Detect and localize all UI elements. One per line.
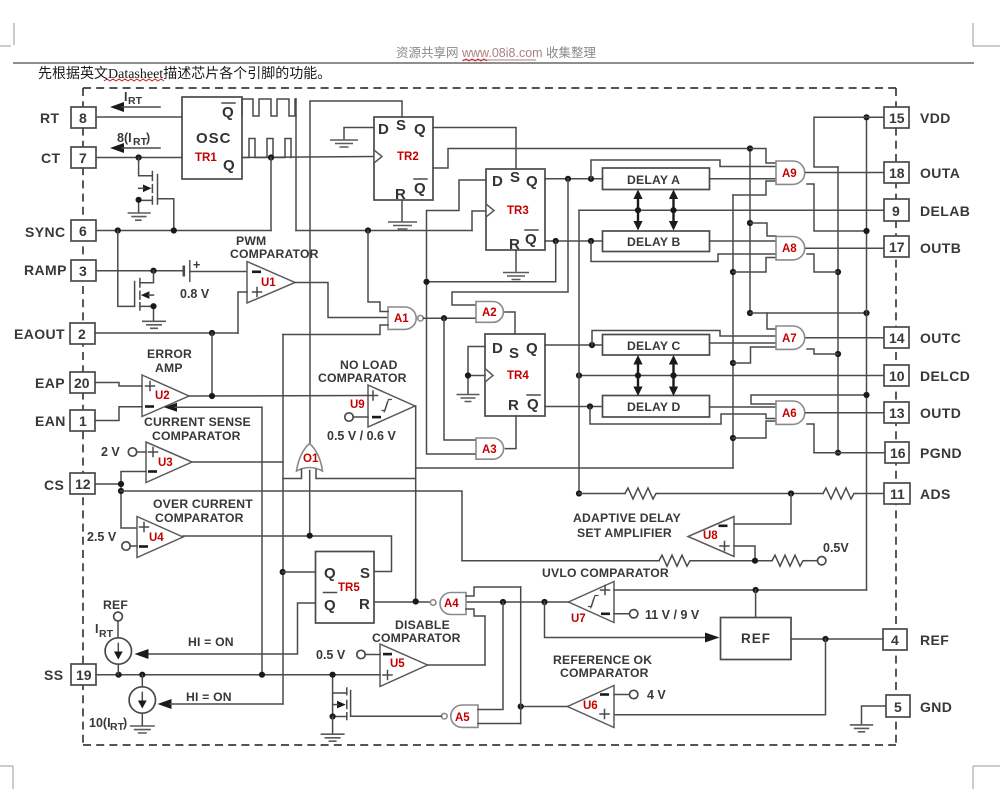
wire CS pin row	[95, 483, 121, 485]
double arrow AB-1	[633, 190, 642, 231]
svg-text:COMPARATOR: COMPARATOR	[372, 631, 461, 645]
page corner mark bottom-right	[973, 766, 1000, 789]
rail x733 (kill line)	[732, 195, 734, 468]
wire U1 output to A1	[295, 283, 388, 318]
wire VDD pin row	[814, 117, 884, 167]
svg-text:REF: REF	[920, 632, 949, 648]
wire REF out to U6+	[614, 639, 826, 715]
svg-text:6: 6	[79, 223, 87, 239]
wire kill row468	[416, 467, 733, 469]
junction VDD row	[863, 114, 869, 120]
wire TR3 Q bypass to A9	[591, 160, 776, 179]
svg-text:ADS: ADS	[920, 486, 951, 502]
junction TR3 Qbar / A8 feed	[588, 238, 594, 244]
ground (TR2 R)	[388, 222, 417, 229]
wire SS row	[96, 674, 380, 676]
comparator U4 (over current)	[137, 517, 183, 558]
svg-text:0.5 V / 0.6 V: 0.5 V / 0.6 V	[327, 429, 396, 443]
junction ADS/U8-	[788, 490, 794, 496]
svg-text:Q: Q	[527, 396, 539, 413]
svg-text:U9: U9	[350, 399, 365, 411]
junction TR4 Q / A7 bypass	[589, 342, 595, 348]
svg-text:8(I: 8(I	[117, 131, 132, 145]
svg-text:U3: U3	[158, 457, 173, 469]
MOSFET Q3 (SS discharge)	[321, 675, 351, 742]
svg-text:Q: Q	[324, 597, 336, 614]
pin REF 4	[883, 629, 907, 650]
op-amp U2 (error amp)	[142, 375, 189, 417]
wire TR5 R row	[374, 601, 430, 603]
ground (Q3)	[321, 734, 345, 741]
junction U7+/REF	[753, 587, 759, 593]
comparator U7 (UVLO, points left)	[569, 582, 615, 623]
junction CS node1	[118, 481, 124, 487]
junction RAMP/FET	[150, 268, 156, 274]
Q2 source wire	[140, 306, 154, 320]
svg-text:RT: RT	[40, 110, 60, 126]
junction EAOUT/U2out	[209, 330, 215, 336]
Q2 channel bar	[139, 279, 141, 311]
Q3 drain wire	[333, 692, 347, 694]
junction rail750/A8	[747, 220, 753, 226]
ground (Q1 source)	[128, 213, 151, 220]
resistor R3	[659, 555, 692, 566]
svg-text:S: S	[360, 565, 370, 582]
svg-text:UVLO COMPARATOR: UVLO COMPARATOR	[542, 566, 669, 580]
svg-text:先根据英文Datasheet描述芯片各个引脚的功能。: 先根据英文Datasheet描述芯片各个引脚的功能。	[38, 65, 331, 82]
junction CD line / rail579	[576, 372, 582, 378]
svg-text:I: I	[95, 622, 98, 636]
wire A4 input2 from U5	[466, 609, 485, 665]
svg-text:R: R	[359, 596, 370, 613]
wire TR4 Q row to DELAY C	[545, 344, 603, 346]
wire Q branch down to SYNC row	[270, 158, 272, 231]
MOSFET Q1 (CT discharge)	[128, 158, 174, 230]
wire A5 input1 from U7 line	[478, 602, 503, 710]
svg-text:REFERENCE OK: REFERENCE OK	[553, 653, 652, 667]
Q1 channel bar	[151, 172, 153, 205]
arrow 8(IRT)	[110, 143, 124, 153]
svg-text:DELAY C: DELAY C	[627, 339, 681, 353]
pin SYNC 6	[71, 220, 96, 241]
svg-text:NO LOAD: NO LOAD	[340, 358, 398, 372]
TR2 clock triangle	[374, 150, 382, 163]
svg-text:A5: A5	[455, 712, 470, 724]
junction rail733/A6 bottom	[730, 435, 736, 441]
svg-text:U6: U6	[583, 700, 598, 712]
svg-text:18: 18	[889, 165, 905, 181]
wire I2 bottom to ground	[141, 713, 143, 725]
Q3 source wire	[333, 716, 347, 718]
svg-text:OSC: OSC	[196, 130, 232, 147]
svg-text:20: 20	[74, 375, 90, 391]
wire U5 output to A4	[428, 664, 486, 666]
junction A1 out	[441, 315, 447, 321]
junction row395/VDD rail	[863, 392, 869, 398]
wire CS row to adaptive delay	[121, 491, 462, 561]
AND gate A9	[776, 161, 805, 184]
pin OUTD 13	[884, 402, 909, 423]
Q2 body arrow	[141, 291, 150, 299]
wire rail733 to A7 bottom input	[733, 347, 776, 363]
AND gate A7	[776, 326, 805, 349]
wire U8+ to 0.5V row	[734, 546, 755, 561]
svg-text:16: 16	[890, 445, 906, 461]
wire U3- to CS node	[121, 472, 146, 529]
wire I1 to SS	[117, 664, 119, 675]
junction SYNC/gate	[115, 227, 121, 233]
flip-flop TR3	[486, 169, 545, 250]
svg-text:17: 17	[889, 239, 905, 255]
pin ADS 11	[884, 483, 910, 504]
wire TR4 Qbar bypass to A6	[590, 407, 776, 425]
svg-text:11: 11	[890, 486, 905, 502]
double arrow CD-1	[633, 355, 642, 396]
junction rail838/PGND	[835, 450, 841, 456]
svg-text:0.5 V: 0.5 V	[316, 648, 346, 662]
Q3 source junction	[330, 713, 336, 719]
oscillator OSC TR1	[182, 97, 242, 179]
block DELAY C	[603, 335, 710, 356]
svg-text:1: 1	[79, 413, 87, 429]
junction row2 to A1	[365, 227, 371, 233]
svg-text:12: 12	[75, 476, 91, 492]
resistor R1	[625, 488, 658, 499]
svg-text:D: D	[378, 121, 389, 138]
svg-text:R: R	[509, 236, 520, 253]
waveform Q-bar (OSC top output)	[242, 99, 296, 116]
svg-text:4: 4	[891, 632, 899, 648]
pin SS 19	[71, 664, 96, 685]
wire U7 out to REF input arrow	[545, 602, 707, 638]
junction TR3 Qbar / D-feedback	[553, 238, 559, 244]
svg-text:2 V: 2 V	[101, 445, 120, 459]
svg-text:REF: REF	[103, 598, 128, 612]
arrow IRT	[110, 102, 124, 112]
junction U4out/O1	[307, 533, 313, 539]
Q3 body arrow	[337, 701, 346, 709]
resistor R4	[772, 555, 805, 566]
junction rail838/A7 step	[835, 351, 841, 357]
wire A5 output to Q3 gate	[351, 715, 442, 717]
wire TR5 Q to rail283	[283, 571, 316, 573]
svg-text:A8: A8	[782, 243, 797, 255]
svg-text:DELAB: DELAB	[920, 203, 970, 219]
junction rail838/A8 step	[835, 269, 841, 275]
comparator U5 (disable)	[380, 644, 428, 687]
wire TR5 Qbar to HI=ON top	[148, 603, 316, 654]
block DELAY B	[603, 231, 710, 252]
wire A3 output to TR4 R	[506, 416, 517, 449]
wire TR3 Qbar to D-feedback node	[427, 241, 556, 282]
svg-text:ERROR: ERROR	[147, 347, 192, 361]
svg-text:Q: Q	[526, 340, 538, 357]
junction TR4 Qbar / A6 bypass	[587, 403, 593, 409]
svg-text:U2: U2	[155, 390, 170, 402]
OR gate O1 (points up)	[297, 444, 323, 472]
svg-text:DELCD: DELCD	[920, 368, 970, 384]
junction SYNC/Q1 gate	[171, 227, 177, 233]
svg-text:Q: Q	[324, 565, 336, 582]
svg-text:9: 9	[892, 203, 900, 219]
Q2 gate bar	[134, 282, 136, 307]
wire OSC Qbar output	[295, 99, 297, 116]
wire CS attenuator row	[462, 560, 659, 562]
delay AB adjust line to pin9	[579, 209, 884, 211]
svg-text:A7: A7	[782, 333, 797, 345]
wire EAOUT row	[95, 332, 238, 334]
wire SYNC row2 (Qbar) to TR3 clock run	[296, 230, 472, 232]
AND gate A4 (points left, bubbled out)	[440, 593, 466, 615]
svg-text:2.5 V: 2.5 V	[87, 530, 117, 544]
wire A4 input1 from U6 rail	[466, 587, 521, 596]
wire Q3 source to ground	[332, 717, 334, 734]
pin CT 7	[71, 147, 96, 168]
wire battery to U1 minus	[190, 271, 247, 273]
AND gate A5 (points left, bubbled out)	[451, 705, 478, 727]
waveform Q (OSC bottom output)	[242, 139, 291, 158]
svg-text:HI = ON: HI = ON	[188, 635, 234, 649]
wire A9 output step to rail	[807, 184, 867, 231]
wire A5 input2 from U6 line	[478, 723, 521, 725]
header red wavy underline	[463, 59, 487, 61]
double arrow AB-2	[669, 190, 678, 231]
wire O1 right input	[316, 470, 416, 479]
ground (I2)	[130, 726, 155, 733]
svg-text:3: 3	[79, 263, 87, 279]
pin RT 8	[71, 107, 96, 128]
flip-flop TR2	[374, 117, 433, 200]
wire A1 input1 from SYNC row2	[368, 231, 388, 312]
NAND gate A1	[388, 307, 416, 329]
junction TR5 Q tap	[280, 569, 286, 575]
junction TR3 Q / A9 bypass	[588, 176, 594, 182]
pin DELCD 10	[884, 365, 909, 386]
Q2 drain wire	[140, 271, 154, 283]
junction rail579 / ADS row	[576, 490, 582, 496]
header rule	[13, 62, 974, 64]
wire U1 plus input from EAOUT	[238, 292, 247, 333]
wire A6 output step to PGND row	[807, 424, 814, 453]
wire TR2 D to ground	[344, 128, 374, 140]
ground (TR4)	[457, 395, 480, 402]
AND gate A8	[776, 237, 805, 260]
block DELAY A	[603, 168, 710, 190]
page corner mark bottom-left	[0, 766, 13, 789]
delay CD adjust line to pin10	[579, 375, 884, 377]
svg-text:A6: A6	[782, 408, 797, 420]
junction TR3 Q / A2 feed	[565, 176, 571, 182]
svg-text:AMP: AMP	[155, 361, 183, 375]
svg-text:5: 5	[894, 699, 902, 715]
svg-text:U5: U5	[390, 658, 405, 670]
AND gate A2	[476, 302, 503, 323]
wire rail733 to A8 bottom input	[733, 258, 776, 273]
svg-text:SET AMPLIFIER: SET AMPLIFIER	[577, 526, 672, 540]
svg-text:OVER CURRENT: OVER CURRENT	[153, 497, 253, 511]
comparator U9 (no load)	[368, 385, 415, 427]
wire A1 out down to A3	[444, 318, 476, 440]
wire U8- to ADS node	[734, 494, 791, 525]
svg-text:RAMP: RAMP	[24, 262, 67, 278]
junction U7out/REF-arrow	[541, 599, 547, 605]
terminal 0.5/0.6	[345, 413, 353, 421]
pin DELAB 9	[884, 199, 909, 221]
wire TR4 Q bypass to A7	[592, 331, 776, 346]
terminal 4V	[614, 694, 630, 696]
wire U7+ to VDD rail	[614, 589, 867, 591]
junction rail733/A7 bottom	[730, 360, 736, 366]
svg-text:A9: A9	[782, 168, 797, 180]
wire TR2 Q to TR3 S	[433, 128, 516, 170]
wire TR4 Qbar row to DELAY D	[545, 406, 603, 408]
svg-text:15: 15	[889, 110, 905, 126]
flip-flop TR4	[485, 334, 545, 416]
junction TR4 D/clk	[465, 372, 471, 378]
svg-text:TR3: TR3	[507, 205, 529, 217]
rail x750 (TR2 feedback)	[749, 149, 751, 314]
latch TR5	[316, 552, 375, 624]
junction SS/10IRT	[139, 672, 145, 678]
svg-text:OUTA: OUTA	[920, 165, 960, 181]
svg-text:RT: RT	[99, 628, 114, 640]
svg-text:A2: A2	[482, 307, 497, 319]
wire rail733 to A9 bottom input	[733, 181, 776, 195]
svg-text:SS: SS	[44, 667, 63, 683]
wire U9 output rail	[414, 406, 417, 602]
page corner mark top-right	[973, 23, 1000, 46]
wire TR2 R to ground	[401, 200, 403, 221]
wire TR3 Q row to DELAY A	[545, 178, 603, 180]
junction SS/Q3	[330, 672, 336, 678]
svg-text:D: D	[492, 173, 503, 190]
wire A8 output step to rail	[807, 254, 838, 272]
Q1 body arrow	[143, 185, 151, 193]
wire TR2 Qbar feedback row	[433, 149, 750, 169]
wire rail750 to A9 top input	[750, 149, 776, 164]
svg-text:+: +	[193, 258, 200, 272]
pin OUTA 18	[884, 162, 909, 183]
rail x521 U6 out	[520, 587, 522, 724]
svg-text:I: I	[124, 90, 127, 104]
wire U3 output row	[192, 461, 283, 463]
svg-text:R: R	[395, 186, 406, 203]
rail x867 (VDD/UVLO sense)	[866, 117, 868, 590]
svg-text:S: S	[509, 345, 519, 362]
svg-text:COMPARATOR: COMPARATOR	[152, 429, 241, 443]
svg-text:DELAY A: DELAY A	[627, 173, 680, 187]
wire U7 output row	[466, 601, 569, 603]
ground (Q2 source)	[142, 321, 166, 328]
comparator U6 (reference ok, points left)	[568, 686, 615, 728]
svg-text:SYNC: SYNC	[25, 224, 66, 240]
svg-text:U8: U8	[703, 530, 718, 542]
arrowhead into REF	[705, 633, 720, 643]
junction CT/FET	[136, 154, 142, 160]
wire TR3 Qbar bypass to A8	[591, 241, 776, 262]
wire ADS row with resistors	[579, 493, 625, 495]
svg-text:4 V: 4 V	[647, 688, 666, 702]
Q1 gate wire to SYNC row	[158, 199, 174, 230]
svg-text:资源共享网 www.08i8.com 收集整理: 资源共享网 www.08i8.com 收集整理	[396, 45, 597, 60]
pin OUTB 17	[884, 236, 909, 257]
TR3 clock triangle	[486, 204, 494, 217]
block DELAY D	[603, 396, 710, 418]
svg-text:CS: CS	[44, 477, 64, 493]
wire OSC Q to TR2 clock	[242, 157, 375, 158]
svg-text:ADAPTIVE DELAY: ADAPTIVE DELAY	[573, 511, 681, 525]
svg-text:14: 14	[889, 330, 905, 346]
svg-text:OUTC: OUTC	[920, 330, 961, 346]
wire TR3 Qbar row to DELAY B	[545, 240, 603, 242]
op-amp U8 (adaptive delay, points left)	[688, 517, 734, 557]
double arrow CD-2	[669, 355, 678, 396]
svg-text:PGND: PGND	[920, 445, 962, 461]
junction SS/clamp	[259, 672, 265, 678]
svg-text:Q: Q	[414, 180, 426, 197]
junction rail750 top	[747, 145, 753, 151]
wire DELAY A out to A9	[710, 178, 777, 180]
pin CS 12	[70, 473, 95, 494]
svg-text:O1: O1	[303, 453, 319, 465]
svg-text:10: 10	[889, 368, 905, 384]
svg-text:U4: U4	[149, 532, 164, 544]
wire rail733 to A6 bottom input	[733, 421, 776, 438]
Q3 gate bar	[350, 691, 352, 717]
junction REF out	[822, 636, 828, 642]
svg-text:EAP: EAP	[35, 375, 65, 391]
svg-text:10(I: 10(I	[89, 716, 111, 730]
svg-text:COMPARATOR: COMPARATOR	[155, 511, 244, 525]
wire rail750 to A8 top input	[750, 223, 776, 236]
svg-text:DELAY B: DELAY B	[627, 235, 681, 249]
svg-text:Q: Q	[222, 104, 234, 121]
junction D-feedback	[423, 279, 429, 285]
current source I1 (IRT)	[105, 638, 131, 664]
svg-text:Q: Q	[414, 121, 426, 138]
wire EAP pin to U2+	[95, 383, 142, 387]
svg-text:DISABLE: DISABLE	[395, 618, 450, 632]
svg-text:OUTD: OUTD	[920, 405, 961, 421]
wire O1 center input	[309, 471, 311, 536]
rail x838	[837, 167, 839, 453]
wire I2 top to SS	[141, 675, 143, 687]
wire GND pin to ground	[862, 706, 886, 724]
TR4 clock triangle	[485, 369, 493, 383]
wire O1 left input	[283, 469, 302, 479]
ground (GND pin)	[850, 725, 873, 732]
wire TR3 D feedback (to Qbar node)	[427, 180, 487, 454]
terminal 11V/9V	[614, 613, 630, 615]
svg-text:EAN: EAN	[35, 413, 66, 429]
junction rail733/A8 bottom	[730, 269, 736, 275]
svg-text:0.5V: 0.5V	[823, 541, 849, 555]
svg-text:DELAY D: DELAY D	[627, 400, 681, 414]
junction U7out/A5	[500, 599, 506, 605]
pin OUTC 14	[884, 327, 909, 348]
wire DELAY C out to A7	[710, 342, 777, 344]
svg-text:GND: GND	[920, 699, 952, 715]
wire RT pin to OSC	[96, 116, 182, 118]
wire RAMP pin row	[96, 270, 184, 272]
ground (TR2 D)	[330, 140, 358, 147]
junction U8+/row	[752, 558, 758, 564]
wire TR3 Q down to A2 top input	[452, 179, 568, 305]
svg-text:TR2: TR2	[397, 151, 419, 163]
rail x283 (TR5 Q)	[282, 335, 284, 705]
svg-text:EAOUT: EAOUT	[14, 326, 65, 342]
pin EAOUT 2	[70, 323, 95, 344]
